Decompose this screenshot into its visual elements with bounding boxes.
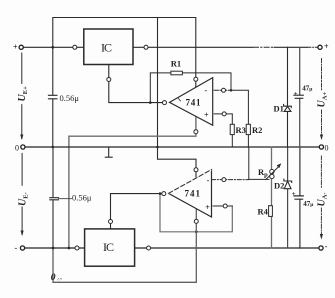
svg-text:0: 0: [325, 143, 329, 152]
pin circle: U2 minus out: [222, 178, 226, 182]
pin circle: U2 V+: [194, 168, 198, 172]
annotation arrow UE-: [21, 153, 23, 234]
svg-text:+: +: [205, 203, 210, 212]
diode D1 (zener): [284, 104, 292, 107]
wire: U2 minus output dash-dot to Rp: [212, 179, 249, 181]
op-amp U1 apex tick: [179, 99, 181, 102]
wire: U1 V- pin routed to negative rail: [69, 117, 196, 249]
wire: +input top wire: [23, 46, 84, 48]
node: junction at C1 top: [51, 46, 54, 49]
node: R1 left junction: [149, 101, 152, 104]
IC regulator IC2 box: [85, 229, 135, 266]
capacitor C4 47u plates: [294, 196, 303, 199]
annotation arrow UA-: [320, 156, 322, 238]
wire: capacitor C3 column: [299, 47, 301, 147]
pin circle: U1 V+: [194, 77, 198, 81]
svg-text:Rp: Rp: [258, 167, 268, 179]
pin circle: IC1 left: [73, 45, 77, 49]
wire: potentiometer column: [271, 147, 273, 248]
label UE+: [17, 86, 29, 102]
wire: [274, 46, 307, 48]
svg-text:741: 741: [186, 98, 202, 108]
wire: negative bottom rail: [25, 247, 319, 249]
wire: capacitor C1 column: [52, 47, 54, 147]
pin circle: IC2 right: [147, 246, 151, 250]
label UE-: [17, 192, 29, 206]
wire: Rp left leg from 0 rail: [249, 147, 269, 179]
pin circle: U1 plus out: [222, 112, 226, 116]
wire: D2 column: [287, 147, 289, 248]
wire: dash-dot section of output line: [254, 46, 275, 48]
svg-text:47μ: 47μ: [302, 84, 313, 92]
svg-text:UA+: UA+: [317, 92, 329, 108]
label UA+: [317, 92, 329, 108]
annotation arrow UE+: [21, 53, 23, 139]
ground: [105, 147, 112, 157]
pin circle: U2 plus out: [223, 204, 227, 208]
svg-text:+: +: [13, 43, 18, 52]
svg-text:R2: R2: [252, 125, 262, 135]
pin circle: U2 V-: [194, 219, 198, 223]
node: junction C1 bottom at 0 rail: [52, 146, 55, 149]
resistor R3: [230, 124, 234, 134]
resistor R4: [269, 206, 273, 217]
wire: R3 bottom to 0 rail: [231, 135, 233, 147]
wire: R1 left leg down to input node: [150, 73, 171, 103]
node: loop left junction at rail: [52, 247, 55, 250]
pin circle: U1 V-: [194, 130, 198, 134]
svg-text:UE-: UE-: [17, 192, 29, 206]
svg-text:R4: R4: [258, 207, 269, 217]
potentiometer Rp arrow: [266, 166, 280, 180]
op-amp U2 741: [169, 170, 212, 218]
wire: U1 minus output to R2: [214, 89, 231, 91]
svg-text:˄ʷ: ˄ʷ: [57, 278, 63, 283]
svg-text:0.56μ: 0.56μ: [72, 193, 92, 203]
svg-text:R1: R1: [171, 59, 181, 69]
wire: U1 plus output to R3: [214, 114, 232, 124]
terminal: 0 left: [21, 145, 25, 149]
resistor R2: [246, 124, 250, 134]
svg-text:-: -: [207, 176, 210, 185]
wire: IC2 top pin to U2 input: [111, 194, 164, 229]
svg-text:-: -: [205, 86, 208, 95]
capacitor C2 leader line: [58, 198, 71, 200]
svg-text:IC: IC: [103, 240, 114, 254]
svg-text:+: +: [294, 90, 298, 98]
capacitor C1 0.56u plates: [49, 95, 57, 99]
wire: long +supply vertical to U2 V+: [158, 18, 197, 180]
svg-text:0.56μ: 0.56μ: [60, 93, 80, 103]
wire: top rail loop with U1 V+ drop: [53, 18, 196, 88]
svg-text:741: 741: [185, 189, 201, 199]
capacitor C3 47u plates: [294, 95, 303, 98]
svg-text:-: -: [325, 242, 328, 251]
pin circle: IC1 bottom: [107, 78, 111, 82]
terminal: - output bottom right: [319, 246, 323, 250]
wire: U2 V- pin to bottom loop: [53, 209, 196, 282]
terminal: + output top right: [318, 45, 322, 49]
pin circle: U2 input: [162, 192, 166, 196]
terminal: 0 right: [319, 145, 323, 149]
capacitor C2 0.56u plates: [50, 198, 59, 200]
svg-text:R3: R3: [236, 125, 246, 135]
annotation arrow UA+: [321, 59, 323, 139]
pin circle: U1 input: [163, 101, 167, 105]
node: feedback junction at input: [159, 192, 162, 195]
pin circle: IC2 left: [75, 246, 79, 250]
svg-text:47μ: 47μ: [303, 200, 314, 208]
svg-text:UA-: UA-: [317, 192, 329, 206]
node: R1 right junction: [230, 89, 233, 92]
wire: D1 column: [287, 47, 289, 147]
op-amp U1 741: [170, 78, 213, 126]
wire: capacitor C2 column: [52, 147, 54, 248]
wire: dash-dot before + terminal: [308, 46, 318, 48]
svg-text:D1: D1: [274, 104, 284, 114]
terminal: - input bottom left: [20, 246, 24, 250]
wire: capacitor C4 column: [299, 147, 301, 248]
svg-text:0: 0: [51, 273, 56, 283]
node: supply vertical crossing 0 rail: [156, 146, 159, 149]
svg-text:+: +: [204, 110, 209, 119]
node: wire A junction at rail: [68, 247, 71, 250]
svg-text:+: +: [324, 42, 329, 51]
wire: IC1 bottom pin to U1 input: [109, 65, 165, 103]
IC regulator IC1 box: [84, 29, 133, 65]
wire: 0 rail: [25, 146, 320, 148]
wire: R1 right leg to minus-output node: [182, 73, 231, 90]
resistor R1: [171, 71, 183, 75]
potentiometer Rp body circles: [270, 169, 274, 173]
pin circle: U1 minus out: [222, 88, 226, 92]
node: loop crossing junction: [195, 231, 198, 234]
wire: R2 bottom to 0 rail: [247, 135, 249, 147]
diode D2 (zener): [284, 179, 292, 182]
op-amp U2 dashed top edge overlay: [169, 170, 212, 194]
svg-text:0: 0: [15, 144, 19, 153]
pin circle: IC1 right: [144, 45, 148, 49]
pin circle: IC2 top: [109, 220, 113, 224]
terminal: + input top left: [19, 45, 23, 49]
svg-text:-: -: [15, 244, 18, 253]
svg-text:UE+: UE+: [17, 86, 29, 102]
wire: U2 feedback loop: [160, 194, 232, 232]
wire: IC1 output line to +output terminal: [133, 46, 253, 48]
label UA-: [317, 192, 329, 206]
svg-text:IC: IC: [101, 41, 112, 55]
svg-text:D2: D2: [274, 181, 284, 191]
svg-text:+: +: [292, 190, 296, 198]
wire: U2 plus output stub: [213, 205, 232, 207]
